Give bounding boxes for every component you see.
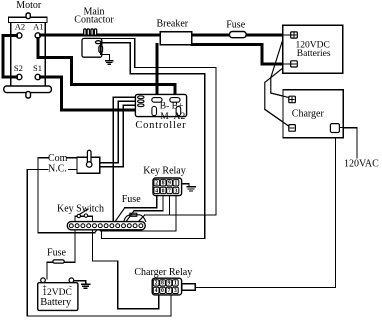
svg-text:-: - bbox=[69, 282, 72, 291]
svg-text:A1: A1 bbox=[33, 21, 43, 31]
svg-text:120VAC: 120VAC bbox=[344, 158, 379, 169]
svg-text:Com: Com bbox=[48, 153, 68, 164]
svg-text:9: 9 bbox=[168, 181, 171, 187]
svg-text:2: 2 bbox=[155, 281, 158, 287]
svg-text:2: 2 bbox=[155, 181, 158, 187]
svg-text:Motor: Motor bbox=[16, 0, 42, 11]
svg-text:4: 4 bbox=[155, 188, 158, 194]
svg-text:3: 3 bbox=[174, 288, 177, 294]
svg-text:Charger: Charger bbox=[292, 109, 325, 120]
svg-text:8: 8 bbox=[161, 281, 164, 287]
svg-text:9: 9 bbox=[167, 281, 170, 287]
svg-text:Batteries: Batteries bbox=[297, 49, 331, 59]
svg-text:Breaker: Breaker bbox=[156, 19, 188, 30]
svg-text:Controller: Controller bbox=[135, 120, 186, 131]
svg-text:+: + bbox=[42, 283, 47, 292]
svg-text:Charger Relay: Charger Relay bbox=[134, 267, 192, 278]
svg-text:Key Relay: Key Relay bbox=[143, 166, 186, 177]
svg-text:4: 4 bbox=[155, 288, 158, 294]
svg-text:0: 0 bbox=[162, 188, 165, 194]
svg-text:Fuse: Fuse bbox=[226, 19, 245, 30]
svg-text:B- B+: B- B+ bbox=[160, 102, 184, 112]
svg-text:1: 1 bbox=[174, 181, 177, 187]
svg-text:8: 8 bbox=[162, 181, 165, 187]
svg-text:Fuse: Fuse bbox=[47, 248, 66, 259]
svg-text:7: 7 bbox=[167, 288, 170, 294]
svg-text:S2: S2 bbox=[14, 63, 23, 73]
svg-text:3: 3 bbox=[174, 188, 177, 194]
svg-text:A2: A2 bbox=[15, 21, 25, 31]
svg-text:Key Switch: Key Switch bbox=[57, 203, 104, 214]
svg-text:Battery: Battery bbox=[40, 297, 72, 308]
svg-text:S1: S1 bbox=[33, 63, 42, 73]
svg-text:7: 7 bbox=[168, 188, 171, 194]
svg-text:1: 1 bbox=[174, 281, 177, 287]
svg-text:Fuse: Fuse bbox=[122, 194, 141, 205]
svg-text:0: 0 bbox=[161, 288, 164, 294]
svg-text:Contactor: Contactor bbox=[74, 15, 114, 26]
svg-text:N.C.: N.C. bbox=[48, 164, 67, 175]
